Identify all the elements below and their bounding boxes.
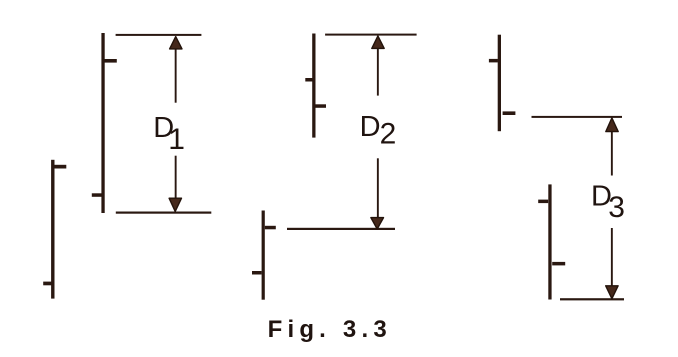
svg-text:2: 2 xyxy=(380,117,397,150)
svg-text:3: 3 xyxy=(608,191,625,224)
svg-text:D: D xyxy=(360,111,381,143)
svg-text:1: 1 xyxy=(168,123,185,156)
svg-text:Fig. 3.3: Fig. 3.3 xyxy=(268,316,392,343)
